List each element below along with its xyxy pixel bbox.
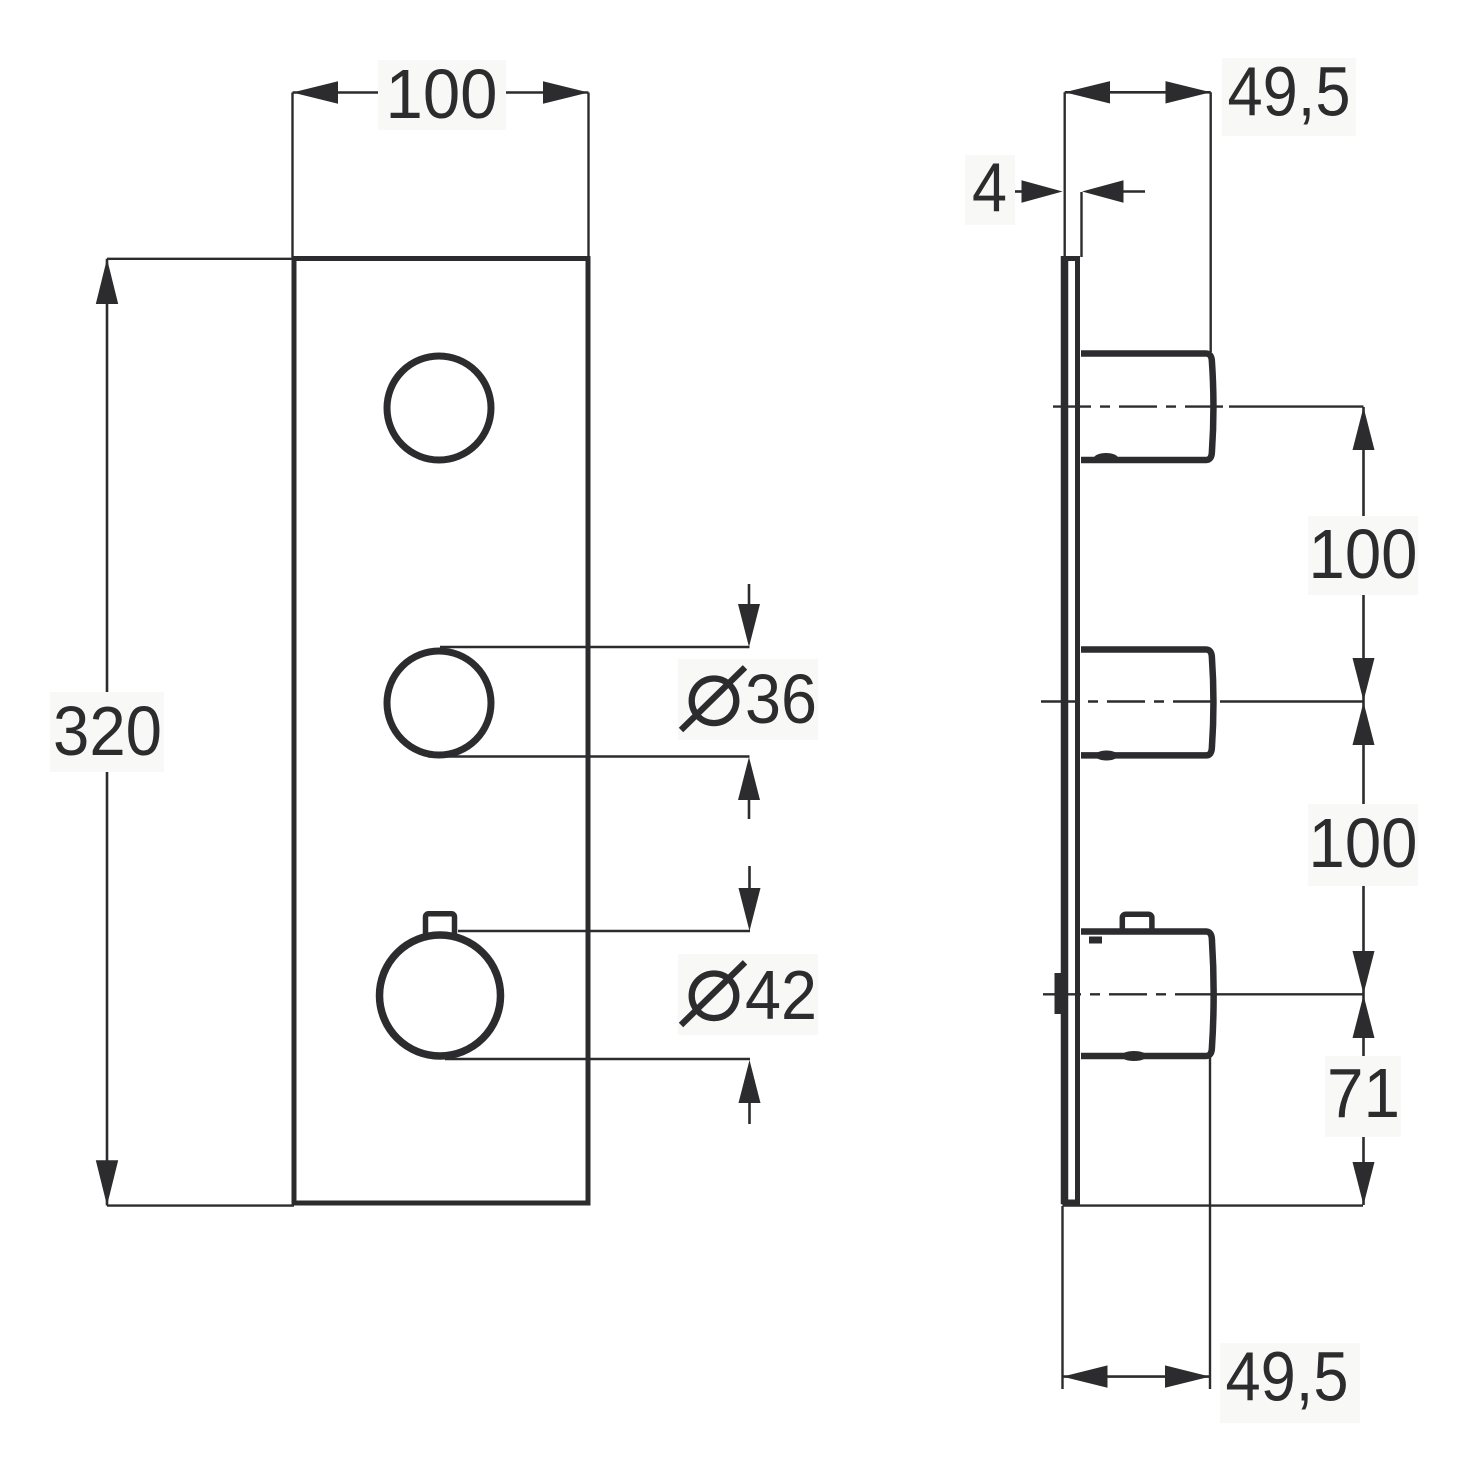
svg-text:42: 42 [745,956,817,1034]
dimension 4 (plate thickness) [965,149,1145,258]
side view: top knob centerline [1053,405,1364,407]
svg-text:100: 100 [1309,804,1418,882]
svg-text:49,5: 49,5 [1226,1338,1349,1416]
side view: wall clip bump [1055,973,1064,1014]
side view: bottom knob index tab [1122,914,1152,939]
front view: faceplate outline [294,259,588,1204]
side view: bottom thermostat knob [1081,932,1214,1062]
front view: top handle hole circle [387,356,491,460]
dimension 49,5 (top depth) [1065,52,1356,352]
label d36 [678,659,818,740]
dimension 100 (top width) [293,55,589,258]
dimension 49,5 (bottom depth) [1063,1057,1361,1423]
front view: bottom thermostat knob circle (d42) [380,935,501,1056]
side view: middle knob centerline [1041,700,1364,702]
side view: bottom knob centerline [1043,993,1364,995]
svg-text:100: 100 [1309,515,1418,593]
front view: middle handle hole circle (d36) [387,651,491,755]
side view: wall plate [1062,256,1081,1204]
svg-text:49,5: 49,5 [1228,52,1351,130]
svg-text:320: 320 [53,692,162,770]
dimension 320 (left height) [50,259,294,1206]
side view: middle knob [1081,650,1213,761]
dimension d36 (middle circle) [428,584,818,819]
svg-text:100: 100 [386,55,498,133]
dimension d42 (bottom circle) [445,866,818,1124]
svg-text:4: 4 [972,149,1007,227]
svg-text:71: 71 [1327,1054,1400,1132]
label d42 [678,954,818,1035]
side view: top knob [1081,354,1213,464]
dimension chain 100 / 100 / 71 (right) [1063,407,1419,1206]
front view: bottom knob index tab [426,914,455,941]
svg-text:36: 36 [745,660,817,738]
